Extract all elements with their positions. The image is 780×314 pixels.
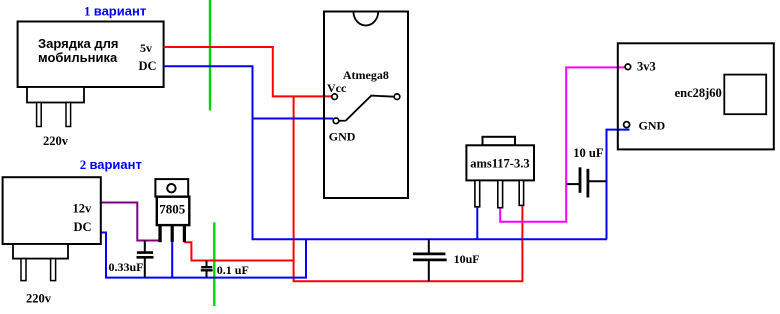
7805 leg 2 <box>171 225 174 242</box>
capacitor 10 uF (right) left wire <box>566 183 580 185</box>
PSU1 box Зарядка для мобильника <box>18 22 164 88</box>
svg-text:7805: 7805 <box>159 202 186 217</box>
wire purple 12v to 7805 input <box>101 203 161 241</box>
svg-text:Atmega8: Atmega8 <box>343 68 389 82</box>
regulator 7805 top tab <box>155 179 188 197</box>
svg-text:0.33uF: 0.33uF <box>109 260 144 274</box>
pin GND circle <box>333 118 339 124</box>
capacitor 0.33uF plates <box>137 251 153 254</box>
switch right contact circle <box>394 94 400 100</box>
svg-text:220v: 220v <box>26 292 52 306</box>
wire magenta ams117 pin2 to enc 3v3 <box>500 67 625 221</box>
svg-text:1 вариант: 1 вариант <box>84 3 146 18</box>
wire blue branch to GND pin <box>253 118 334 120</box>
capacitor 0.1uF plates <box>201 266 212 268</box>
ams117 leg 3 <box>519 180 523 205</box>
regulator ams117-3.3 tab <box>483 137 516 146</box>
green line 2 <box>213 222 215 306</box>
capacitor 10 uF (right) right wire <box>588 180 607 182</box>
IC notch <box>353 12 378 26</box>
regulator 7805 body <box>157 197 190 225</box>
7805 leg 3 <box>183 225 186 242</box>
regulator ams117-3.3 body <box>466 145 534 180</box>
svg-text:Зарядка для: Зарядка для <box>38 36 118 51</box>
pin 3v3 circle <box>625 64 631 70</box>
svg-text:3v3: 3v3 <box>637 59 656 73</box>
capacitor 10uF (bottom) stub top <box>428 239 430 253</box>
svg-text:0.1 uF: 0.1 uF <box>217 263 249 277</box>
wire blue ams117 pin1 to bus <box>476 207 478 240</box>
capacitor 0.1uF stub top <box>206 261 208 268</box>
svg-text:ams117-3.3: ams117-3.3 <box>470 156 529 170</box>
wire red 5v to Vcc <box>164 47 332 96</box>
capacitor 0.33uF stub top <box>144 241 146 253</box>
switch inside Atmega8 <box>339 96 394 121</box>
svg-text:GND: GND <box>329 129 356 143</box>
ams117 leg 1 <box>475 180 480 206</box>
7805 leg 1 <box>158 225 161 242</box>
svg-text:мобильника: мобильника <box>38 50 118 65</box>
wire red 7805 output <box>184 242 293 260</box>
svg-text:12v: 12v <box>73 202 93 216</box>
svg-text:2 вариант: 2 вариант <box>80 157 142 172</box>
pin Vcc circle <box>332 94 338 100</box>
svg-text:GND: GND <box>639 118 666 132</box>
svg-text:DC: DC <box>139 59 157 73</box>
capacitor 10 uF (right) plates <box>579 167 582 193</box>
pin GND circle (enc28j60) <box>624 122 630 128</box>
capacitor 10uF (bottom) stub bottom <box>428 260 430 281</box>
plug 1 <box>27 87 84 103</box>
ams117 leg 2 <box>498 180 503 207</box>
enc28j60 inner square <box>724 75 766 115</box>
svg-text:Vcc: Vcc <box>327 81 347 95</box>
svg-text:10 uF: 10 uF <box>573 146 604 160</box>
plug 2 <box>13 244 68 259</box>
capacitor 0.1uF stub bottom <box>206 270 208 277</box>
capacitor 0.33uF stub bottom <box>144 257 146 277</box>
svg-text:10uF: 10uF <box>454 252 480 266</box>
wire blue variant2 DC ground line <box>101 233 306 278</box>
green line 1 <box>209 0 211 111</box>
7805 hole <box>167 184 175 192</box>
svg-text:5v: 5v <box>140 41 152 55</box>
svg-text:enc28j60: enc28j60 <box>675 86 722 100</box>
wire blue enc28j60 GND down to bus <box>607 130 630 240</box>
wire red Vcc branch down to red bus and up to ams117 pin3 <box>294 96 523 281</box>
wire blue 7805 pin2 to ground line <box>171 242 173 277</box>
capacitor 10uF (bottom) plates <box>413 252 446 255</box>
svg-text:DC: DC <box>74 220 92 234</box>
wire blue DC to bus <box>164 66 608 239</box>
PSU2 box 12v <box>3 177 101 244</box>
svg-text:220v: 220v <box>43 134 69 148</box>
IC Atmega8 body <box>324 12 408 199</box>
module enc28j60 box <box>618 43 774 149</box>
